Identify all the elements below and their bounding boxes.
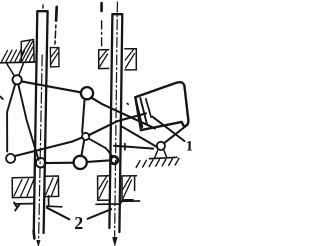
brace: rail to support [121,126,157,147]
cylinder body 1 [135,82,188,130]
link: P1 to left rail pin [18,84,38,159]
link: J3 up-right to J5 [15,137,83,156]
lower-right guide: right block hatched [122,176,137,200]
link: J5 to piston (crosses piston rod) [89,113,146,135]
brace: cylinder to support circle [164,127,185,144]
support base line [149,157,177,158]
svg-text:1: 1 [186,139,192,155]
link: J1 down to J5 [82,99,85,132]
pin J5 [82,133,89,140]
upper-left guide: block outline [21,40,34,62]
lower-left guide: bottom plate [15,196,62,207]
left rail pin [36,158,46,168]
horizontal link: left rail pin to J2 [46,162,74,165]
fixed pivot hanger legs [6,63,23,75]
cylinder left end cap [135,97,142,127]
svg-text:2: 2 [74,213,83,233]
left rail centerline [42,5,44,8]
crank pin J1 [81,87,93,99]
upper-right guide: left block hatching [99,50,107,67]
right rail pin [111,156,118,163]
scan speck near cylinder [127,102,128,105]
support triangle legs [155,149,167,158]
left slide bar (rail) 2 [34,11,48,233]
lower-left guide: left block hatched [12,177,35,197]
upper-left guide: hatching [2,50,25,62]
right rail centerline arrow [113,237,118,246]
piston rod: J1 to piston [92,98,155,129]
link: J5 to right rail pin [89,139,113,157]
support pivot circle [157,142,165,150]
frame riser [124,144,126,150]
coupler pin J2 [74,156,87,169]
lower-left guide: plate hatch [14,203,20,211]
horizontal link: J2 to right rail pin [87,160,111,162]
frame line: rail to support [114,146,153,149]
scan speck at left edge [0,97,2,99]
leader line to label 1 [153,117,185,141]
fixed pivot P1 [13,75,22,84]
pin J3 [6,154,15,163]
upper-left guide: block hatching [22,41,34,61]
guide centerline above upper-left guide [55,7,58,21]
right slide bar (rail) 2 [109,14,122,232]
guide centerline above upper-right guide [100,3,103,11]
upper-left right block hatching [51,48,58,64]
upper-right guide: right block [125,49,136,70]
left rail centerline arrow [37,240,40,246]
leader lines to label 2 [47,208,111,220]
upper-right guide: right block hatching [125,50,134,69]
support ground hatching [136,158,179,167]
upper-right guide: left block [99,50,109,69]
lower-left guide: right block hatched [44,176,58,197]
link: J5 down to J2 [81,140,84,156]
lower-right guide: bottom plate [96,201,140,204]
piston line A [140,98,147,125]
link: pivot P1 to crank pin J1 [22,81,82,92]
piston line B [146,99,151,117]
link: P1 down to J3 [7,84,15,151]
right rail centerline [115,2,118,240]
lower-right guide: left block hatched [98,176,109,200]
upper-left guide: ground line [1,61,36,64]
upper-left guide: right small block [50,48,59,67]
left rail bottom foot [32,231,35,239]
